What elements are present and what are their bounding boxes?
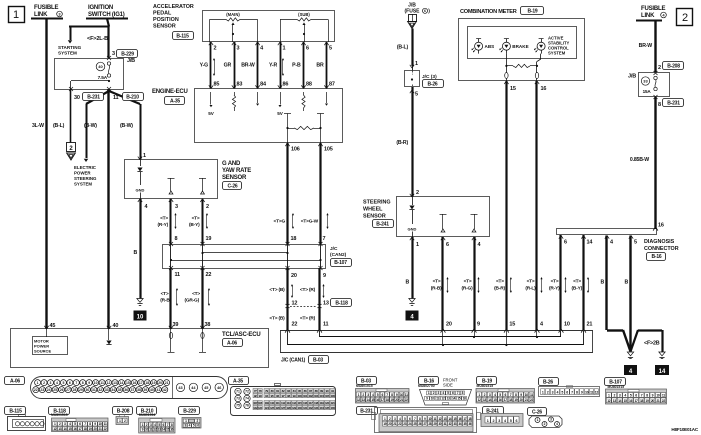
svg-text:(R-G): (R-G)	[462, 286, 474, 292]
svg-text:1: 1	[487, 419, 489, 423]
svg-text:14: 14	[63, 427, 66, 431]
svg-text:11: 11	[662, 393, 665, 397]
svg-text:13: 13	[113, 381, 117, 385]
svg-text:121: 121	[330, 401, 335, 405]
svg-text:21: 21	[99, 427, 102, 431]
svg-text:116: 116	[303, 401, 308, 405]
svg-text:125: 125	[270, 406, 275, 410]
svg-text:11: 11	[113, 95, 119, 101]
svg-text:17: 17	[381, 398, 385, 402]
svg-text:106: 106	[291, 147, 300, 153]
svg-text:<T>: <T>	[160, 216, 168, 222]
svg-text:15: 15	[371, 398, 375, 402]
svg-text:20: 20	[651, 399, 655, 403]
svg-text:MU801515: MU801515	[51, 413, 68, 417]
svg-text:(B-W): (B-W)	[120, 123, 133, 129]
svg-text:B: B	[600, 280, 604, 286]
svg-text:5: 5	[329, 46, 332, 52]
svg-text:(GR-G): (GR-G)	[184, 298, 199, 304]
svg-text:MU801515: MU801515	[477, 384, 494, 388]
svg-text:3L-W: 3L-W	[32, 123, 44, 129]
svg-text:22: 22	[530, 398, 534, 402]
svg-text:0.85B-W: 0.85B-W	[630, 157, 649, 163]
svg-text:88: 88	[306, 82, 312, 88]
svg-text:21: 21	[656, 399, 660, 403]
svg-text:22: 22	[104, 427, 107, 431]
svg-text:20: 20	[519, 398, 523, 402]
svg-text:STEERING: STEERING	[363, 200, 391, 206]
svg-text:16: 16	[541, 86, 547, 92]
svg-text:16: 16	[170, 428, 173, 432]
svg-text:18: 18	[145, 381, 149, 385]
svg-text:DIAGNOSIS: DIAGNOSIS	[644, 239, 675, 245]
svg-text:B-118: B-118	[335, 300, 348, 306]
svg-text:5: 5	[634, 240, 637, 246]
svg-text:15: 15	[68, 427, 71, 431]
svg-text:<T>: <T>	[192, 291, 200, 297]
svg-text:2: 2	[43, 381, 45, 385]
svg-text:B-26: B-26	[427, 81, 437, 87]
svg-text:85: 85	[214, 82, 220, 88]
svg-text:33: 33	[643, 78, 648, 83]
svg-text:B: B	[405, 280, 409, 286]
svg-text:16: 16	[658, 223, 664, 229]
svg-text:12: 12	[357, 398, 361, 402]
svg-text:105: 105	[324, 147, 333, 153]
svg-text:25: 25	[53, 388, 57, 392]
svg-text:101: 101	[303, 394, 308, 398]
svg-text:SENSOR: SENSOR	[222, 175, 247, 181]
svg-text:2: 2	[544, 422, 546, 426]
svg-text:J/B: J/B	[127, 58, 135, 64]
svg-text:128: 128	[286, 406, 291, 410]
svg-text:(R-Y): (R-Y)	[549, 286, 560, 292]
svg-text:TCL/ASC-ECU: TCL/ASC-ECU	[222, 332, 260, 338]
svg-text:22: 22	[662, 399, 666, 403]
svg-text:14: 14	[452, 396, 455, 400]
svg-text:17: 17	[635, 399, 639, 403]
svg-text:12: 12	[53, 427, 56, 431]
svg-text:ABS: ABS	[485, 44, 495, 49]
svg-text:20: 20	[446, 322, 452, 328]
svg-text:108: 108	[258, 401, 263, 405]
svg-text:3: 3	[498, 419, 500, 423]
svg-text:3: 3	[550, 418, 552, 422]
svg-text:B: B	[133, 250, 137, 256]
svg-text:112: 112	[281, 401, 286, 405]
svg-text:17: 17	[139, 381, 143, 385]
svg-text:MU801515: MU801515	[608, 385, 625, 389]
svg-text:MU801594: MU801594	[139, 413, 156, 417]
svg-text:71: 71	[236, 390, 240, 394]
svg-text:A-06: A-06	[227, 340, 237, 346]
svg-text:15: 15	[624, 399, 628, 403]
svg-text:14: 14	[488, 398, 492, 402]
svg-text:3: 3	[50, 381, 52, 385]
svg-text:135: 135	[325, 406, 330, 410]
svg-text:<T> (R): <T> (R)	[300, 316, 316, 322]
svg-text:3: 3	[112, 51, 115, 57]
svg-text:PEDAL: PEDAL	[153, 11, 172, 17]
svg-text:Y-G: Y-G	[200, 63, 209, 69]
svg-text:6: 6	[446, 242, 449, 248]
svg-text:13: 13	[58, 427, 61, 431]
svg-text:<T>: <T>	[527, 279, 535, 285]
svg-text:38: 38	[205, 322, 211, 328]
svg-text:12: 12	[607, 399, 611, 403]
svg-text:13: 13	[613, 399, 617, 403]
svg-text:14: 14	[120, 381, 124, 385]
svg-text:ACCELERATOR: ACCELERATOR	[153, 4, 194, 10]
svg-text:30: 30	[86, 388, 90, 392]
svg-text:LINK: LINK	[641, 13, 655, 19]
svg-text:16: 16	[463, 396, 466, 400]
svg-text:FUSIBLE: FUSIBLE	[34, 5, 58, 11]
svg-text:<T>: <T>	[161, 291, 169, 297]
svg-text:(B-R): (B-R)	[396, 140, 408, 146]
svg-text:H8F10E01AC: H8F10E01AC	[671, 427, 698, 432]
svg-text:23: 23	[40, 388, 44, 392]
svg-text:16: 16	[132, 381, 136, 385]
svg-text:24: 24	[47, 388, 51, 392]
svg-text:73: 73	[236, 397, 240, 401]
svg-text:<T>G-W: <T>G-W	[301, 219, 319, 225]
svg-text:15: 15	[126, 381, 130, 385]
svg-text:14: 14	[618, 399, 622, 403]
svg-text:9: 9	[477, 322, 480, 328]
svg-text:9: 9	[323, 273, 326, 279]
svg-text:SYSTEM: SYSTEM	[74, 182, 92, 187]
svg-text:(R-Y): (R-Y)	[158, 222, 169, 228]
svg-text:17: 17	[78, 427, 81, 431]
svg-text:<T>: <T>	[573, 279, 581, 285]
svg-text:45: 45	[50, 323, 56, 329]
svg-text:14: 14	[162, 428, 165, 432]
svg-text:<T> (R): <T> (R)	[300, 287, 316, 293]
svg-text:105: 105	[325, 394, 330, 398]
svg-text:GND: GND	[136, 188, 145, 193]
svg-text:B-19: B-19	[527, 9, 537, 15]
svg-text:BR-W: BR-W	[241, 63, 255, 69]
svg-text:12: 12	[441, 396, 444, 400]
svg-text:5: 5	[510, 419, 512, 423]
svg-text:136: 136	[330, 406, 335, 410]
svg-text:B: B	[624, 280, 628, 286]
svg-text:16: 16	[73, 427, 76, 431]
svg-text:A-06: A-06	[10, 378, 20, 384]
svg-text:19: 19	[152, 381, 156, 385]
svg-text:132: 132	[308, 406, 313, 410]
svg-text:12: 12	[107, 381, 111, 385]
svg-text:2: 2	[682, 12, 688, 24]
svg-text:30: 30	[74, 95, 80, 101]
svg-text:109: 109	[264, 401, 269, 405]
svg-text:B-115: B-115	[176, 33, 189, 39]
svg-text:14: 14	[366, 398, 370, 402]
svg-text:5V: 5V	[208, 111, 215, 116]
svg-text:131: 131	[303, 406, 308, 410]
svg-text:BRAKE: BRAKE	[512, 44, 528, 49]
svg-text:10: 10	[656, 393, 660, 397]
svg-text:2: 2	[493, 419, 495, 423]
svg-text:117: 117	[309, 401, 314, 405]
svg-text:4: 4	[556, 422, 558, 426]
svg-text:SENSOR: SENSOR	[153, 24, 176, 30]
svg-text:CONNECTOR: CONNECTOR	[644, 246, 679, 252]
svg-text:120: 120	[325, 401, 330, 405]
svg-text:27: 27	[66, 388, 70, 392]
svg-text:113: 113	[287, 401, 292, 405]
svg-text:6: 6	[69, 381, 71, 385]
svg-text:118: 118	[314, 401, 319, 405]
svg-text:18: 18	[291, 236, 297, 242]
svg-text:11: 11	[104, 422, 107, 426]
svg-text:7: 7	[75, 381, 77, 385]
svg-text:6: 6	[516, 419, 518, 423]
svg-text:29: 29	[79, 388, 83, 392]
svg-text:28: 28	[73, 388, 77, 392]
svg-text:YAW RATE: YAW RATE	[222, 168, 251, 174]
svg-text:124: 124	[264, 406, 269, 410]
svg-text:(SUB): (SUB)	[298, 12, 310, 17]
svg-text:39: 39	[173, 322, 179, 328]
svg-text:76: 76	[245, 404, 249, 408]
svg-text:10: 10	[431, 396, 434, 400]
svg-text:ENGINE-ECU: ENGINE-ECU	[152, 89, 188, 95]
svg-text:41: 41	[156, 388, 160, 392]
svg-text:B-210: B-210	[126, 94, 139, 100]
svg-text:46: 46	[217, 386, 221, 390]
svg-text:1: 1	[283, 46, 286, 52]
svg-text:SOURCE: SOURCE	[34, 349, 51, 354]
svg-text:STEERING: STEERING	[74, 176, 97, 181]
svg-text:<T> (B): <T> (B)	[269, 287, 285, 293]
svg-text:<T>: <T>	[496, 279, 504, 285]
svg-text:GR: GR	[224, 63, 232, 69]
svg-text:18: 18	[509, 398, 513, 402]
svg-text:SYSTEM: SYSTEM	[548, 51, 566, 56]
svg-text:17: 17	[504, 398, 508, 402]
svg-text:13: 13	[323, 301, 329, 307]
svg-text:74: 74	[245, 397, 249, 401]
svg-text:1: 1	[416, 242, 419, 248]
svg-text:2: 2	[206, 204, 209, 210]
svg-text:45: 45	[204, 386, 208, 390]
svg-text:1: 1	[537, 418, 539, 422]
svg-text:3: 3	[237, 46, 240, 52]
svg-text:J/C: J/C	[330, 246, 338, 252]
svg-text:B-231: B-231	[667, 100, 680, 106]
svg-text:15: 15	[509, 322, 515, 328]
svg-text:75: 75	[236, 404, 240, 408]
svg-text:110: 110	[270, 401, 275, 405]
svg-text:20: 20	[395, 398, 399, 402]
svg-text:20: 20	[291, 273, 297, 279]
svg-text:B-241: B-241	[376, 221, 389, 227]
svg-text:86: 86	[283, 82, 289, 88]
svg-text:11: 11	[590, 391, 593, 395]
svg-text:16: 16	[376, 398, 380, 402]
svg-text:J/C (CAN1): J/C (CAN1)	[281, 358, 306, 364]
svg-text:10: 10	[525, 393, 529, 397]
svg-text:13: 13	[483, 398, 487, 402]
svg-text:21: 21	[165, 381, 169, 385]
svg-text:13: 13	[158, 428, 161, 432]
svg-text:6: 6	[306, 46, 309, 52]
svg-text:8: 8	[658, 102, 661, 108]
svg-text:10: 10	[585, 391, 589, 395]
svg-text:22: 22	[34, 388, 38, 392]
svg-text:40: 40	[150, 388, 154, 392]
svg-text:(B-Y): (B-Y)	[189, 222, 200, 228]
svg-text:J/B: J/B	[628, 74, 636, 80]
svg-text:1: 1	[13, 9, 19, 21]
svg-text:BR-W: BR-W	[639, 43, 653, 49]
svg-text:20: 20	[94, 427, 97, 431]
svg-text:2: 2	[416, 190, 419, 196]
svg-text:<F>2B: <F>2B	[644, 341, 660, 347]
svg-text:Y-R: Y-R	[269, 63, 278, 69]
svg-text:21: 21	[525, 398, 529, 402]
svg-text:FUSIBLE: FUSIBLE	[641, 6, 665, 12]
svg-text:IGNITION: IGNITION	[88, 5, 113, 11]
svg-text:<F>2L-B: <F>2L-B	[87, 36, 108, 42]
svg-text:C-26: C-26	[227, 183, 237, 189]
svg-text:(FUSE: (FUSE	[405, 9, 421, 15]
svg-text:83: 83	[237, 82, 243, 88]
svg-text:12: 12	[292, 301, 298, 307]
svg-text:3: 3	[175, 204, 178, 210]
svg-text:B-208: B-208	[117, 408, 130, 414]
svg-text:GND: GND	[408, 227, 417, 232]
svg-text:87: 87	[329, 82, 335, 88]
svg-text:B-107: B-107	[334, 260, 347, 266]
svg-text:<T>: <T>	[551, 279, 559, 285]
svg-text:B-208: B-208	[667, 63, 680, 69]
svg-text:106: 106	[330, 394, 335, 398]
svg-text:SYSTEM: SYSTEM	[58, 51, 77, 56]
svg-text:35: 35	[118, 388, 122, 392]
svg-text:32: 32	[98, 388, 102, 392]
svg-text:(R-B): (R-B)	[431, 286, 442, 292]
svg-text:11: 11	[530, 393, 533, 397]
svg-text:(R-L): (R-L)	[525, 286, 536, 292]
svg-text:(MAIN): (MAIN)	[226, 12, 240, 17]
svg-text:4: 4	[56, 381, 58, 385]
svg-text:36: 36	[124, 388, 128, 392]
svg-text:SIDE: SIDE	[443, 383, 453, 388]
svg-text:127: 127	[281, 406, 286, 410]
svg-text:15: 15	[493, 398, 497, 402]
svg-text:115: 115	[298, 401, 303, 405]
svg-text:15A: 15A	[643, 89, 652, 94]
svg-text:19: 19	[206, 236, 212, 242]
svg-text:B-231: B-231	[87, 94, 100, 100]
svg-text:BR: BR	[316, 63, 324, 69]
svg-text:B-229: B-229	[121, 51, 134, 57]
svg-text:COMBINATION METER: COMBINATION METER	[460, 9, 517, 15]
svg-text:11: 11	[175, 272, 181, 278]
svg-text:22: 22	[292, 322, 298, 328]
svg-text:100: 100	[297, 394, 302, 398]
svg-text:6: 6	[424, 9, 426, 13]
svg-text:12: 12	[153, 428, 156, 432]
svg-text:13: 13	[362, 398, 366, 402]
svg-text:<T> (B): <T> (B)	[269, 316, 285, 322]
svg-text:<T>: <T>	[192, 216, 200, 222]
svg-text:(B-L): (B-L)	[53, 123, 65, 129]
svg-text:11: 11	[100, 381, 104, 385]
svg-text:129: 129	[292, 406, 297, 410]
svg-text:11: 11	[323, 322, 329, 328]
svg-text:(B-Y): (B-Y)	[572, 286, 583, 292]
svg-text:10: 10	[99, 422, 102, 426]
svg-text:19: 19	[88, 427, 91, 431]
svg-text:37: 37	[131, 388, 135, 392]
svg-text:72: 72	[245, 390, 249, 394]
svg-text:33: 33	[105, 388, 109, 392]
svg-text:21: 21	[400, 398, 404, 402]
svg-text:12: 12	[478, 398, 482, 402]
svg-text:C-26: C-26	[532, 409, 542, 415]
svg-text:16: 16	[499, 398, 503, 402]
svg-text:104: 104	[319, 394, 324, 398]
svg-text:5V: 5V	[277, 111, 284, 116]
svg-text:26: 26	[60, 388, 64, 392]
svg-text:B-229: B-229	[183, 408, 196, 414]
svg-text:G AND: G AND	[222, 161, 241, 167]
svg-text:20: 20	[158, 381, 162, 385]
svg-text:A-35: A-35	[170, 98, 180, 104]
svg-text:114: 114	[292, 401, 297, 405]
svg-text:B-03: B-03	[313, 357, 323, 363]
svg-text:40: 40	[98, 64, 103, 69]
svg-text:5: 5	[62, 381, 64, 385]
svg-text:(B-R): (B-R)	[494, 286, 505, 292]
svg-text:P-B: P-B	[292, 63, 301, 69]
svg-text:(R-B): (R-B)	[160, 298, 171, 304]
svg-text:22: 22	[206, 272, 212, 278]
svg-text:18: 18	[386, 398, 390, 402]
svg-text:10: 10	[564, 322, 570, 328]
svg-text:31: 31	[92, 388, 96, 392]
svg-text:15: 15	[457, 396, 460, 400]
svg-text:14: 14	[659, 369, 666, 375]
svg-text:LINK: LINK	[34, 12, 48, 18]
svg-text:10: 10	[145, 428, 148, 432]
svg-text:SENSOR: SENSOR	[363, 214, 386, 220]
svg-text:10: 10	[94, 381, 98, 385]
svg-text:SWITCH (IG1): SWITCH (IG1)	[88, 12, 125, 18]
svg-text:15: 15	[510, 86, 516, 92]
svg-text:123: 123	[258, 406, 263, 410]
svg-text:MU801515: MU801515	[356, 384, 373, 388]
svg-text:12: 12	[595, 391, 599, 395]
svg-text:POSITION: POSITION	[153, 17, 179, 23]
svg-text:(B-L): (B-L)	[397, 45, 409, 51]
svg-text:16: 16	[629, 399, 633, 403]
svg-text:1: 1	[143, 153, 146, 159]
svg-text:13: 13	[447, 396, 450, 400]
svg-text:43: 43	[178, 386, 182, 390]
svg-text:18: 18	[640, 399, 644, 403]
svg-text:19: 19	[645, 399, 649, 403]
svg-text:2: 2	[214, 46, 217, 52]
svg-text:38: 38	[137, 388, 141, 392]
svg-text:10: 10	[400, 393, 404, 397]
svg-text:34: 34	[111, 388, 115, 392]
svg-text:POWER: POWER	[74, 171, 91, 176]
